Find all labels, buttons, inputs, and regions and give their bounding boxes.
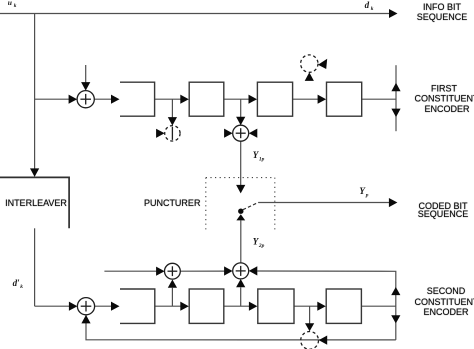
wire: A1 to register SR1 — [94, 98, 112, 100]
arrowhead: into parity adder P2 left — [224, 266, 233, 275]
adder A3 (encoder2 input XOR) — [77, 298, 94, 315]
wire: encoder2 parity line start segment — [104, 270, 157, 272]
arrowhead: into register SR8 — [317, 302, 326, 311]
wire: feedback stub above adder A1 — [85, 65, 87, 84]
label SECOND CONSTITUENT ENCODER — [415, 286, 474, 317]
wire: vertical trunk from top line to interleaver — [34, 14, 36, 170]
wire: junction J5 up to parity adder P2 — [240, 287, 242, 306]
puncturer dotted box — [206, 178, 275, 230]
arrowhead: top info line right arrow — [389, 9, 398, 18]
wire: puncturer output line Yp — [258, 202, 390, 204]
svg-text:ENCODER: ENCODER — [423, 307, 469, 317]
svg-text:k: k — [14, 3, 17, 9]
arrowhead: down into feedback circle C5 top — [305, 323, 314, 331]
wire: A3 bottom feedback entry stub — [85, 315, 87, 323]
register SR7 (encoder2) — [258, 289, 294, 323]
wire: right vertical V1 of encoder 1 — [395, 65, 397, 131]
wire: puncturer lower feed Y2p up line — [240, 220, 242, 263]
wire: SR1 to SR2 — [155, 98, 182, 100]
wire: row2 input branch — [35, 305, 70, 307]
arrowhead: Y1p into puncturer — [236, 185, 245, 194]
label dk (info bit out) — [365, 0, 374, 12]
wire: encoder2 feedback below A3 and bottom line — [86, 323, 396, 340]
svg-text:k: k — [371, 6, 374, 12]
arrowhead: into register SR4 — [318, 95, 327, 104]
arrowhead: floating left of D1 — [156, 129, 165, 138]
arrowhead: puncturer output Yp right — [389, 198, 398, 207]
svg-text:SECOND: SECOND — [427, 286, 466, 296]
arrowhead: into parity adder P1 left — [156, 267, 165, 276]
wire: junction J1 down to dashed tap D1 — [171, 99, 173, 118]
svg-text:CONSTITUENT: CONSTITUENT — [415, 94, 474, 104]
svg-text:INFO BIT: INFO BIT — [423, 2, 462, 12]
wire: A2 down to puncturer (Y1p) — [240, 141, 242, 185]
adder A2 (encoder1 parity XOR) — [233, 125, 249, 141]
arrowhead: up into dashed circle D2 bottom — [305, 72, 314, 81]
adder P2 (encoder2 parity XOR 2) — [233, 263, 249, 279]
puncturer switch blade — [243, 202, 259, 209]
arrowhead: tilted left arrow on dashed circle D2 — [318, 59, 327, 69]
arrowhead: into interleaver top — [30, 168, 39, 177]
wire: row1 input branch — [35, 98, 70, 100]
arrowhead: up into adder A3 bottom — [81, 315, 90, 324]
arrowhead: floating right of P2 — [249, 266, 257, 275]
arrowhead: into register SR6 — [180, 302, 189, 311]
svg-text:2p: 2p — [258, 243, 265, 249]
arrowhead: into register SR7 — [249, 302, 258, 311]
dashed tap circle D1 (encoder1 optional tap) — [165, 126, 180, 141]
wire: top info bit line — [0, 13, 390, 15]
wire: SR4 to right vertical V1 — [362, 98, 396, 100]
svg-text:p: p — [365, 192, 369, 198]
register SR1 (encoder1, open left side) — [120, 82, 155, 116]
wire: SR6 to SR7 — [224, 305, 250, 307]
arrowhead: left into feedback circle C5 right — [319, 336, 328, 345]
arrowhead: up into switch pivot — [236, 214, 245, 220]
arrowhead: V2 downward to feedback line — [391, 315, 400, 323]
label FIRST CONSTITUENT ENCODER — [415, 83, 474, 113]
svg-text:ENCODER: ENCODER — [424, 104, 470, 114]
wire: parity line P1 to P2 — [180, 270, 225, 272]
arrowhead: V1 upward — [391, 83, 400, 92]
svg-text:FIRST: FIRST — [431, 83, 458, 93]
arrowhead: up into parity adder P1 bottom — [168, 280, 177, 288]
puncturer switch pivot dot — [238, 209, 243, 214]
svg-text:u: u — [8, 0, 12, 7]
wire: SR2 to SR3 — [224, 98, 250, 100]
interleaver box (top and right edges) — [0, 177, 69, 228]
arrowhead: floating right of A2 — [249, 129, 257, 138]
arrowhead: into adder A1 top — [81, 82, 90, 91]
arrowhead: into adder A3 left — [69, 302, 78, 311]
arrowhead: into register SR5 — [111, 302, 120, 311]
label Y2p — [253, 237, 265, 250]
wire: SR8 to right vertical V2 — [361, 305, 395, 307]
svg-text:d: d — [365, 0, 370, 10]
label uk (input) — [8, 0, 17, 9]
label Yp (coded output) — [359, 186, 368, 199]
register SR6 (encoder2) — [189, 289, 224, 323]
arrowhead: into register SR3 — [249, 95, 258, 104]
wire: parity line P2 to V2 corner — [257, 271, 396, 340]
svg-text:INTERLEAVER: INTERLEAVER — [5, 198, 67, 208]
adder A1 (encoder1 input XOR) — [77, 91, 94, 108]
arrowhead: into register SR2 — [180, 95, 189, 104]
arrowhead: into register SR1 — [111, 95, 120, 104]
arrowhead: into adder A2 top — [236, 117, 245, 126]
arrowhead: V2 upward to parity line — [391, 287, 400, 295]
register SR4 (encoder1) — [327, 82, 362, 116]
label d'k (interleaved input) — [13, 278, 24, 290]
register SR5 (encoder2, open left side) — [120, 289, 155, 323]
svg-text:SEQUENCE: SEQUENCE — [418, 209, 469, 219]
svg-text:SEQUENCE: SEQUENCE — [417, 12, 468, 22]
svg-text:CONSTITUENT: CONSTITUENT — [415, 297, 474, 307]
label CODED BIT SEQUENCE — [418, 201, 469, 219]
svg-text:PUNCTURER: PUNCTURER — [144, 198, 201, 208]
arrowhead: into adder A1 left — [69, 95, 78, 104]
register SR8 (encoder2) — [326, 289, 361, 323]
label Y1p — [253, 150, 265, 163]
adder P1 (encoder2 parity XOR 1) — [165, 263, 181, 279]
label INFO BIT SEQUENCE — [417, 2, 468, 22]
svg-text:1p: 1p — [259, 156, 265, 162]
wire: junction J2 down to adder A2 — [240, 99, 242, 118]
arrowhead: up into parity adder P2 bottom — [236, 279, 245, 287]
register SR3 (encoder1) — [257, 82, 292, 116]
wire: interleaver output down — [34, 228, 36, 306]
arrowhead: floating left of A2 — [224, 129, 233, 138]
arrowhead: V1 downward — [391, 109, 400, 118]
wire: SR3 to SR4 — [293, 98, 319, 100]
wire: SR7 to SR8 — [294, 305, 319, 307]
wire: A3 to register SR5 — [95, 305, 113, 307]
svg-text:d′: d′ — [13, 278, 21, 288]
dashed feedback circle D2 (encoder1 top tap) — [301, 55, 318, 72]
register SR2 (encoder1) — [189, 82, 224, 116]
wire: SR5 to SR6 — [155, 305, 182, 307]
arrowhead: into dashed tap D1 top — [168, 117, 177, 126]
wire: junction J4 up to parity adder P1 — [171, 288, 173, 306]
svg-text:k: k — [20, 284, 23, 290]
wire: junction J6 down to feedback tap C5 — [309, 306, 311, 324]
dashed feedback circle C5 (encoder2 bottom tap) — [301, 332, 319, 349]
